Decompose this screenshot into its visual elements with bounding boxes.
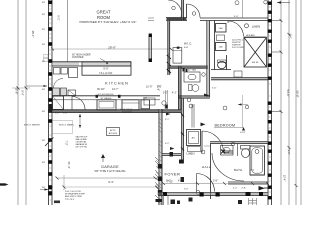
svg-text:14'-8": 14'-8" [240, 132, 246, 134]
svg-text:ELECT. METER: ELECT. METER [24, 125, 40, 127]
svg-text:36" RANGE: 36" RANGE [100, 97, 112, 100]
svg-text:5'x9': 5'x9' [184, 47, 189, 49]
svg-text:ATTIC: ATTIC [110, 129, 116, 132]
svg-text:11'-6": 11'-6" [157, 85, 160, 91]
svg-text:5/8" GYP BD: 5/8" GYP BD [76, 147, 88, 149]
svg-text:HALL: HALL [202, 165, 211, 169]
svg-text:9'-4": 9'-4" [108, 180, 113, 184]
svg-text:5'-4": 5'-4" [63, 113, 68, 115]
svg-text:36 1/2": 36 1/2" [97, 88, 105, 91]
svg-text:W/ WEATHER STRIP: W/ WEATHER STRIP [65, 193, 86, 196]
svg-text:6'-2": 6'-2" [165, 143, 170, 145]
svg-text:LINEN: LINEN [252, 25, 260, 29]
svg-text:FLAT HDR: FLAT HDR [122, 110, 132, 113]
svg-text:21'-4": 21'-4" [67, 161, 71, 168]
svg-text:4'-0": 4'-0" [178, 180, 183, 183]
svg-text:ISLAND: ISLAND [99, 71, 113, 75]
svg-text:2'-8": 2'-8" [213, 180, 218, 183]
svg-text:14'-7": 14'-7" [112, 88, 118, 91]
svg-text:LAV: LAV [219, 27, 224, 30]
svg-text:9'-0": 9'-0" [103, 67, 108, 71]
svg-text:66'-8": 66'-8" [296, 90, 300, 97]
svg-text:GREAT: GREAT [96, 9, 111, 14]
svg-text:5'-6": 5'-6" [212, 88, 217, 90]
svg-text:COUNTER: COUNTER [72, 57, 84, 59]
svg-text:12'-9": 12'-9" [146, 86, 152, 89]
svg-text:ACCESS: ACCESS [109, 132, 118, 135]
svg-text:GARAGE: GARAGE [101, 165, 119, 169]
svg-text:PROPOSED P.T. FLR ELEV: +632'-: PROPOSED P.T. FLR ELEV: +632'-6 1/2" [80, 20, 137, 24]
svg-text:4'-0": 4'-0" [234, 16, 239, 18]
svg-text:166 SF: 166 SF [251, 62, 259, 64]
svg-text:A/C: A/C [192, 137, 196, 140]
svg-text:4'-1": 4'-1" [172, 93, 177, 95]
svg-text:36" HIGH UNDER: 36" HIGH UNDER [72, 55, 91, 57]
svg-text:FOYER: FOYER [165, 172, 181, 177]
svg-text:1'-6": 1'-6" [55, 113, 60, 115]
svg-text:W.I.C.: W.I.C. [184, 42, 192, 46]
svg-text:BATH: BATH [234, 168, 242, 172]
svg-text:LAV: LAV [219, 46, 224, 49]
svg-text:D/W: D/W [143, 98, 147, 100]
svg-text:5'-0": 5'-0" [166, 180, 171, 183]
svg-text:AND VINYL TRIM: AND VINYL TRIM [65, 195, 82, 198]
svg-text:5'-2": 5'-2" [163, 93, 168, 95]
svg-text:2'-8": 2'-8" [242, 188, 247, 190]
svg-text:3'-6": 3'-6" [184, 189, 189, 191]
svg-text:38'-1": 38'-1" [31, 30, 35, 37]
svg-text:4'-2": 4'-2" [233, 188, 238, 190]
svg-text:LINEN: LINEN [187, 152, 195, 156]
svg-text:42" VAN: 42" VAN [188, 69, 197, 72]
svg-text:3'-1": 3'-1" [165, 119, 170, 121]
svg-text:HDR ABV: HDR ABV [246, 34, 255, 37]
svg-text:KITCHEN: KITCHEN [105, 81, 129, 85]
svg-text:ROOM: ROOM [97, 15, 111, 20]
svg-text:5'-2": 5'-2" [287, 150, 290, 155]
svg-text:BEDROOM: BEDROOM [215, 123, 236, 127]
svg-text:3'x5': 3'x5' [251, 170, 255, 172]
svg-text:54'-6": 54'-6" [286, 89, 290, 96]
svg-text:TYP OF 2: TYP OF 2 [65, 199, 75, 201]
svg-text:B21 B15 SB36 B18: B21 B15 SB36 B18 [98, 94, 114, 96]
svg-text:5/8" TYPE X GYP. CEILING: 5/8" TYPE X GYP. CEILING [95, 170, 126, 173]
svg-text:R-10 COVER: R-10 COVER [232, 47, 245, 49]
